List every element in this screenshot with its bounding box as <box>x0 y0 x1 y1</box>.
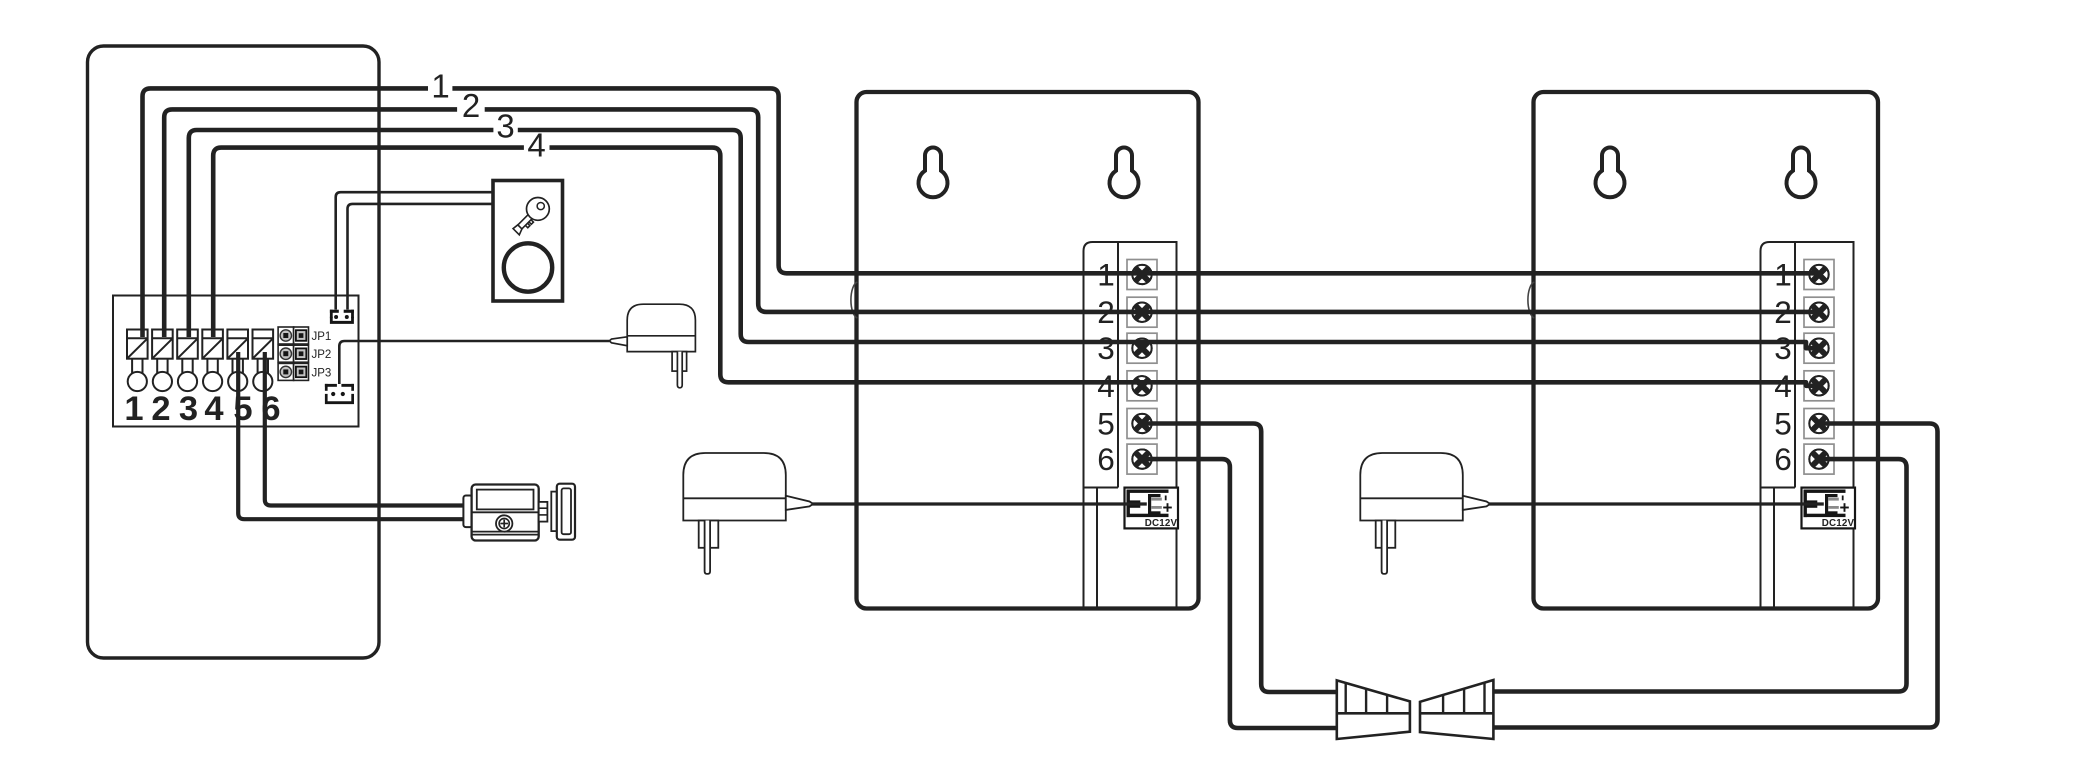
lock keeper plate <box>551 492 557 531</box>
wire 2 main run <box>485 109 1819 312</box>
wire terminal 5 to lock <box>238 352 464 519</box>
connector J1 (key reader connector) <box>330 310 354 324</box>
wire M1 screw5 to doorbell <box>1142 424 1337 693</box>
svg-text:JP1: JP1 <box>312 331 332 343</box>
terminal 5 <box>227 330 248 392</box>
lock latch <box>539 502 548 522</box>
monitor M2 (right) outline <box>1534 92 1879 609</box>
wire M1 screw6 to doorbell <box>1142 459 1337 728</box>
wire 4 door station segment <box>213 148 524 337</box>
wire from key reader A <box>336 192 494 309</box>
power adapter A (door station) <box>609 304 695 388</box>
svg-text:2: 2 <box>462 87 480 124</box>
wire 4 main run <box>550 148 1819 386</box>
power adapter B wire to M1 DC12V <box>810 502 1147 505</box>
svg-text:JP2: JP2 <box>312 349 332 361</box>
wire connector J2 to adapter A <box>339 341 609 384</box>
key icon <box>508 193 554 239</box>
wire M2 screw5 to doorbell <box>1493 424 1938 728</box>
power adapter C (right) <box>1360 453 1490 574</box>
key reader button circle <box>504 243 552 291</box>
jumper JP2 <box>278 345 308 362</box>
doorbell horn right <box>1420 680 1493 739</box>
svg-text:3: 3 <box>496 108 514 145</box>
terminal 6 <box>253 330 274 392</box>
doorbell horn left <box>1337 680 1410 739</box>
electric lock body <box>463 484 575 541</box>
monitor M1 (middle) internals <box>851 148 1178 609</box>
wire M2 screw6 to doorbell <box>1493 459 1907 691</box>
power adapter B (middle) <box>683 453 813 574</box>
svg-text:4: 4 <box>527 127 545 164</box>
wire terminal 6 to lock <box>265 352 464 506</box>
monitor M1 (middle) outline <box>857 92 1199 609</box>
connector J2 (power connector) <box>325 384 354 404</box>
svg-text:3: 3 <box>179 390 198 428</box>
svg-text:1: 1 <box>124 390 143 428</box>
terminal 2 <box>152 330 173 392</box>
wire 2 door station segment <box>164 109 457 337</box>
door station outline <box>88 46 380 658</box>
wire 1 door station segment <box>143 88 429 337</box>
svg-text:4: 4 <box>204 390 223 428</box>
terminal 1 <box>127 330 148 392</box>
power adapter C wire to M2 DC12V <box>1487 502 1824 505</box>
jumper JP1 <box>278 327 308 344</box>
svg-text:2: 2 <box>151 390 170 428</box>
wire 3 door station segment <box>189 130 494 337</box>
key reader box <box>493 181 563 302</box>
monitor M2 (right) internals <box>1528 148 1855 609</box>
terminal 4 <box>202 330 223 392</box>
jumper labels <box>312 331 332 379</box>
wire 1 main run <box>452 88 1818 273</box>
terminal 3 <box>177 330 198 392</box>
wire 3 main run <box>518 130 1819 348</box>
wire from key reader B <box>348 204 495 310</box>
jumper JP3 <box>278 363 308 380</box>
terminal block PCB <box>113 296 359 427</box>
svg-text:JP3: JP3 <box>312 367 332 379</box>
terminal numbers 1-6 <box>124 390 280 428</box>
svg-text:1: 1 <box>431 68 449 105</box>
